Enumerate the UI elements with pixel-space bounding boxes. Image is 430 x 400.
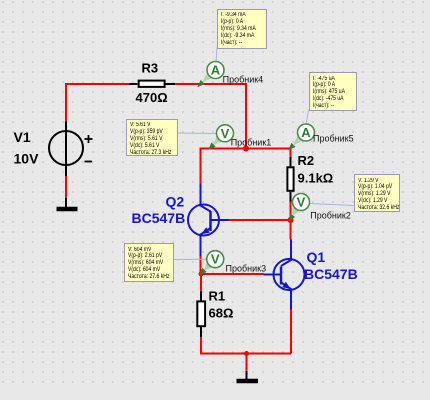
current probe Пробник5: [288, 124, 314, 150]
svg-text:Пробник4: Пробник4: [223, 75, 264, 85]
wire: R1 bottom to bottom rail: [201, 337, 291, 354]
svg-text:10V: 10V: [14, 151, 40, 167]
label Пробник3: [226, 264, 267, 274]
resistor R1: [197, 292, 205, 338]
node: junction dot right: [288, 217, 294, 223]
wire: Q2 emitter down to node A: [200, 256, 202, 274]
svg-text:Пробник5: Пробник5: [313, 134, 354, 144]
voltage source V1: [49, 122, 93, 177]
value 10V: [14, 151, 40, 167]
resistor R3: [130, 81, 176, 87]
svg-text:BC547B: BC547B: [304, 266, 358, 282]
svg-text:470Ω: 470Ω: [136, 90, 168, 105]
svg-text:A: A: [211, 63, 221, 78]
svg-text:Пробник1: Пробник1: [231, 137, 272, 147]
ground under V1: [57, 198, 78, 209]
voltage probe Пробник2: [289, 194, 310, 222]
current probe Пробник4: [197, 62, 224, 88]
value 9.1kΩ: [298, 171, 334, 186]
wire: R3 to top-right corner down to node: [175, 84, 246, 149]
transistor Q1 (NPN): [264, 240, 305, 310]
svg-text:R2: R2: [298, 153, 315, 168]
ground bottom: [237, 371, 259, 381]
readout box Пробник5: [309, 72, 358, 111]
value 68Ω: [209, 306, 234, 321]
label Пробник2: [310, 210, 351, 220]
wire: node down to Q1 collector: [290, 220, 292, 240]
wire: node A to Q1 base: [201, 273, 264, 275]
label R1: [209, 289, 226, 304]
voltage probe Пробник3: [199, 251, 224, 276]
voltage probe Пробник1: [208, 125, 233, 150]
leader line to readout Пробник4: [216, 47, 217, 62]
label R2: [298, 153, 315, 168]
wire: node A down to R1: [200, 274, 202, 292]
svg-text:V: V: [221, 126, 230, 141]
label Q1: [307, 249, 326, 265]
node: bottom junction dot: [244, 351, 249, 356]
wire: Q2 base to node: [229, 219, 291, 221]
wire: V1 plus to R3 top rail: [66, 84, 130, 122]
readout box Пробник2: [354, 174, 400, 212]
node: junction dot top: [243, 146, 249, 152]
svg-text:Пробник3: Пробник3: [226, 264, 267, 274]
leader line to readout Пробник2: [310, 204, 355, 206]
label R3: [142, 61, 159, 76]
svg-text:68Ω: 68Ω: [209, 306, 234, 321]
label Q2: [166, 194, 185, 210]
label V1: [14, 129, 31, 145]
svg-text:V1: V1: [14, 129, 31, 145]
svg-text:A: A: [301, 125, 311, 140]
wire: bottom rail to ground stub: [246, 354, 248, 372]
node A junction dot: [199, 272, 204, 277]
readout box Пробник1: [126, 119, 179, 156]
label Пробник4: [223, 75, 264, 85]
svg-text:V: V: [297, 195, 306, 210]
wire: R2 bottom to node with Q2 base and Q1 collector: [290, 202, 292, 221]
wire: V1 minus to ground: [65, 176, 67, 200]
label Пробник1: [231, 137, 272, 147]
svg-text:V: V: [211, 252, 220, 267]
svg-text:BC547B: BC547B: [132, 210, 186, 226]
value 470Ω: [136, 90, 168, 105]
svg-text:Пробник2: Пробник2: [310, 210, 351, 220]
value BC547B (Q1): [304, 266, 358, 282]
label Пробник5: [313, 134, 354, 144]
value BC547B (Q2): [132, 210, 186, 226]
svg-text:9.1kΩ: 9.1kΩ: [298, 171, 334, 186]
readout box Пробник4: [217, 9, 267, 49]
svg-text:Q1: Q1: [307, 249, 326, 265]
svg-text:Q2: Q2: [166, 194, 185, 210]
wire: Q1 emitter to bottom rail: [290, 310, 292, 354]
leader line to readout Пробник3: [173, 258, 208, 260]
wire: horizontal node wire Q2 collector to R2 top: [201, 149, 291, 184]
leader line to readout Пробник5: [306, 110, 309, 126]
svg-text:R3: R3: [142, 61, 159, 76]
svg-text:R1: R1: [209, 289, 226, 304]
resistor R2: [287, 157, 293, 202]
transistor Q2 (mirrored NPN): [188, 184, 229, 257]
leader line to readout Пробник1: [176, 132, 217, 135]
readout box Пробник3: [124, 243, 174, 282]
